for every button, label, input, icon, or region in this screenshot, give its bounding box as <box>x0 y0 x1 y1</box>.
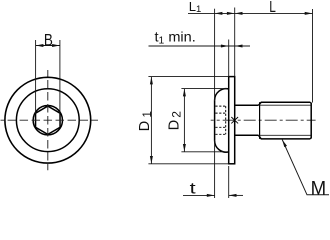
thread OD bottom edge <box>261 138 310 140</box>
svg-text:L: L <box>269 0 276 16</box>
D2 arrow top <box>183 89 186 97</box>
hex socket hidden line inner bottom <box>215 126 225 128</box>
extension line at flange right face (L1 right / L left) <box>234 8 236 77</box>
vertical centerline of front view <box>47 70 49 170</box>
dimension B line <box>36 45 60 47</box>
leader line M <box>282 140 329 195</box>
D1 arrow bottom <box>150 156 153 164</box>
dimension B arrow left <box>36 44 44 47</box>
svg-text:M: M <box>311 178 327 200</box>
hex socket hidden line outer top <box>215 105 225 107</box>
neck top edge <box>235 104 259 106</box>
hex socket bottom hidden line <box>225 106 227 134</box>
svg-text:t: t <box>190 181 197 198</box>
dimension L1 arrow left <box>215 12 223 15</box>
axis centerline <box>211 119 316 121</box>
svg-text:B: B <box>44 30 53 49</box>
hex socket hidden line outer bottom <box>215 133 225 135</box>
thread start chamfer bottom <box>259 135 262 139</box>
svg-text:2: 2 <box>169 111 183 118</box>
D2 arrow bottom <box>183 144 186 152</box>
dimension B arrow right <box>52 44 60 47</box>
dimension L1 arrow right <box>227 12 235 15</box>
thread root line top <box>260 104 311 106</box>
thread runout line <box>259 102 261 139</box>
socket chamfer circle <box>33 106 62 135</box>
extension line at flange left face (t1 left / t right) <box>228 40 230 77</box>
dome top arc <box>215 89 229 101</box>
dimension t arrow left (outside, pointing right) <box>207 194 215 197</box>
dimension D1 line <box>150 77 152 164</box>
dimension t1 arrow left (outside, pointing right) <box>221 45 229 48</box>
extension line at dome face (L1 left / t left) <box>214 9 216 101</box>
dimension B extension line left <box>35 40 37 113</box>
D1 extension top <box>148 76 228 78</box>
thread OD top edge <box>261 101 310 103</box>
svg-text:D: D <box>137 121 153 131</box>
leader arrowhead <box>282 140 287 148</box>
D1 arrow top <box>150 77 153 85</box>
dimension t arrow right (outside, pointing left) <box>229 194 237 197</box>
thread end chamfer and edge <box>310 102 311 139</box>
dimension t1 arrow right (outside, pointing left) <box>235 45 243 48</box>
dome bottom arc <box>215 141 229 153</box>
svg-text:D: D <box>166 120 182 130</box>
D1 extension bottom <box>148 163 228 165</box>
thread root line bottom <box>260 134 311 136</box>
dimension L arrow left <box>235 12 243 15</box>
neck bottom edge <box>235 134 259 136</box>
dimension D2 line <box>183 89 185 152</box>
horizontal centerline of front view <box>1 119 99 121</box>
svg-text:1: 1 <box>142 111 154 117</box>
hex socket hexagon <box>36 106 61 134</box>
dimension t line <box>183 194 215 196</box>
middle circle (dome dia D2) <box>16 89 79 152</box>
dimension L arrow right <box>305 12 313 15</box>
dome flat face <box>214 100 216 140</box>
dimension B extension line right <box>59 40 61 113</box>
dimension t1 line <box>149 45 251 47</box>
D2 extension bottom <box>181 151 227 153</box>
extension line at thread end (L right) <box>312 9 314 103</box>
flange rectangle <box>229 77 235 164</box>
dimension L line <box>235 12 313 14</box>
dimension L1 line <box>188 12 235 14</box>
D2 extension top <box>181 88 227 90</box>
outer circle (flange dia D1) <box>5 77 91 163</box>
thread start chamfer top <box>259 102 262 105</box>
X mark at bearing face on axis <box>231 117 238 123</box>
hex socket hidden line inner top <box>215 112 225 114</box>
